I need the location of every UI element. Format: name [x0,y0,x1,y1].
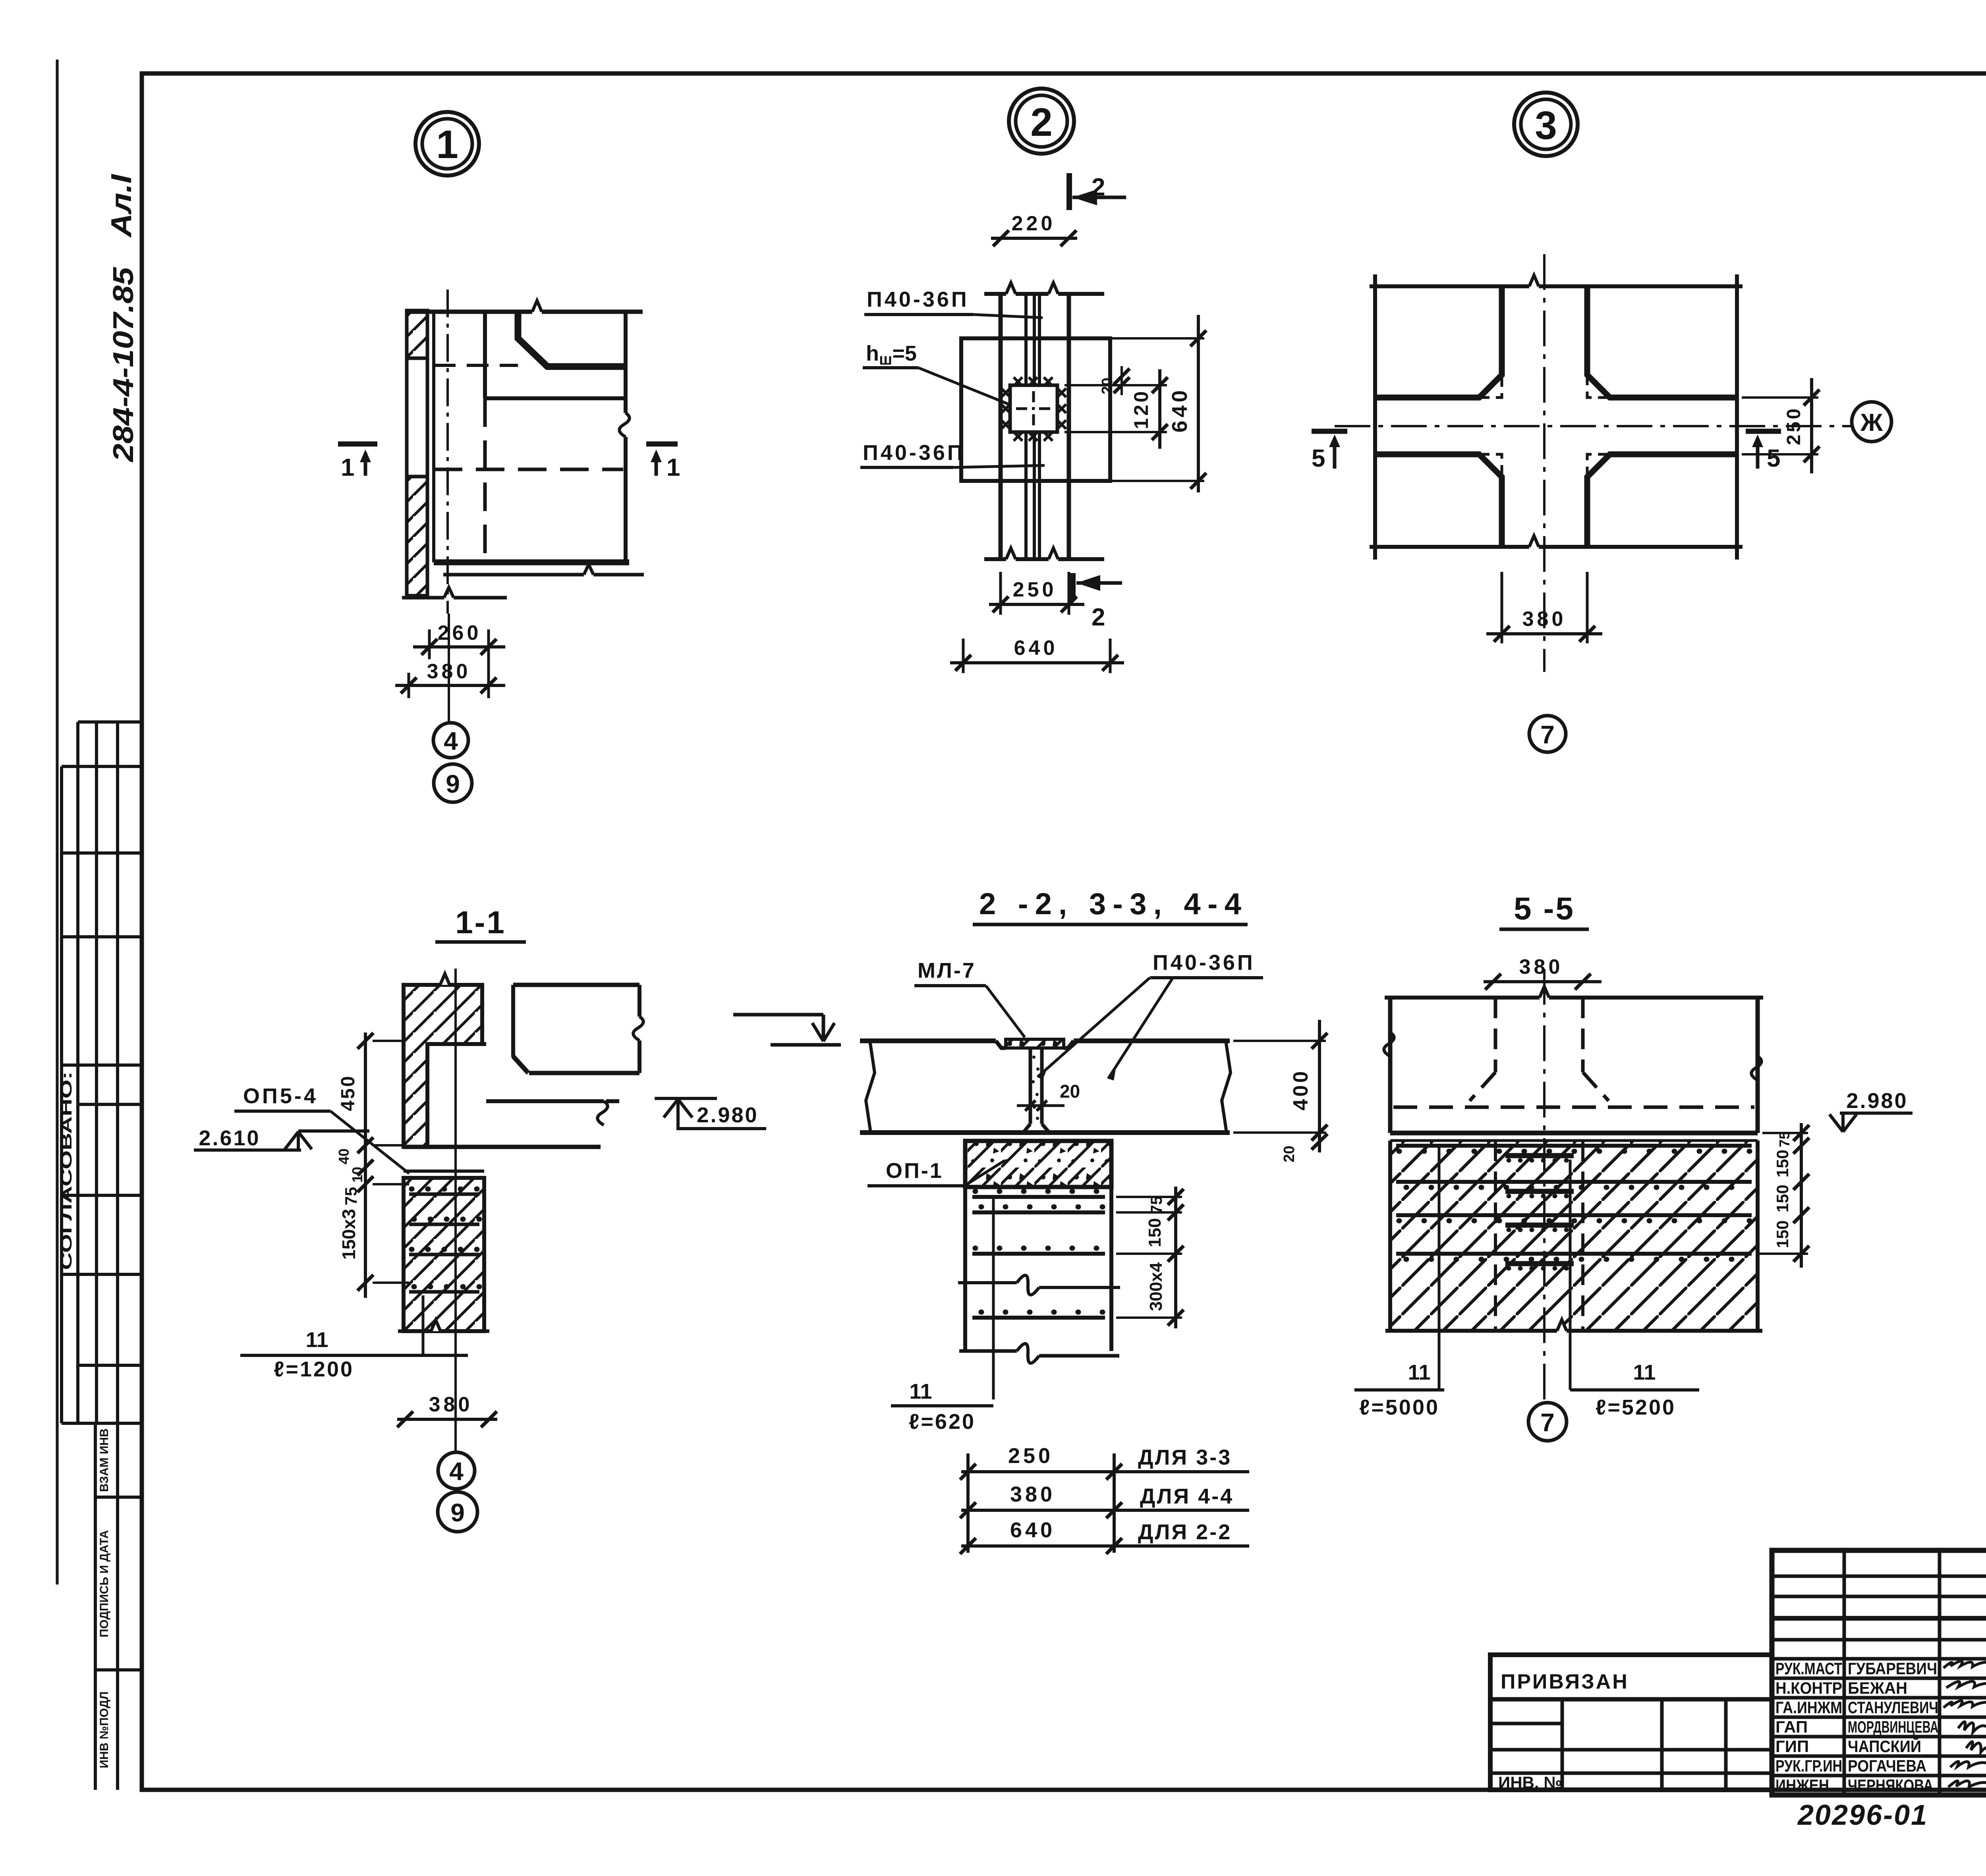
svg-text:11: 11 [305,1328,328,1352]
svg-text:ДЛЯ 4-4: ДЛЯ 4-4 [1140,1484,1234,1508]
svg-text:250: 250 [1008,1444,1053,1468]
mesh row 4 [409,1290,479,1294]
svg-text:ℓ=620: ℓ=620 [909,1410,976,1434]
axis horizontal [1335,425,1851,427]
svg-text:2.980: 2.980 [697,1103,758,1127]
mortar joint lines [404,1170,484,1173]
web mortar dots [1032,1056,1039,1120]
dim table row 640 for 2-2 [961,1544,1249,1548]
grid circle Zh [1852,402,1891,442]
recess ramp right [1064,1041,1074,1048]
joint plate MM-7 [1006,1039,1064,1048]
left dim chain [364,1033,367,1298]
svg-text:МЛ-7: МЛ-7 [918,959,976,982]
slab corner bottom-left [1375,454,1502,547]
dim 20 below [1312,1134,1327,1150]
detail marker circle 1 [415,112,479,176]
svg-text:4: 4 [449,1457,464,1486]
svg-text:380: 380 [429,1393,473,1416]
dim 640 bottom [962,639,965,673]
small grid rows [1772,1575,1986,1578]
wall top edge break [440,974,450,985]
svg-text:20: 20 [1281,1146,1298,1162]
slab field right edge [1735,274,1739,560]
section mark 5 right [1746,429,1781,434]
svg-text:Ж: Ж [1860,409,1883,436]
svg-text:Н.КОНТР: Н.КОНТР [1775,1679,1842,1697]
grid circle 4 [438,1452,475,1489]
dim 120 [1064,384,1167,386]
svg-text:ПОДПИСЬ И ДАТА: ПОДПИСЬ И ДАТА [98,1530,111,1637]
dim 250 right [1742,396,1818,399]
svg-text:МОРДВИНЦЕВА: МОРДВИНЦЕВА [1848,1718,1938,1736]
wall bottom break [959,1349,1017,1353]
embedded plate square [961,338,1110,481]
dim 640 right [1112,337,1204,340]
slab field left edge [1373,274,1377,560]
svg-text:9: 9 [446,770,460,798]
lap bar 4 [1505,1261,1574,1266]
svg-text:250: 250 [1013,578,1057,601]
svg-text:450: 450 [338,1075,359,1111]
dim 20 small [1121,366,1123,395]
slab field top edge with break [1370,284,1529,288]
section trace 2 top [1066,173,1072,210]
masonry bottom break [398,1330,431,1333]
dim table row 380 for 4-4 [961,1509,1249,1512]
svg-text:640: 640 [1010,1518,1055,1542]
svg-text:75: 75 [1148,1196,1165,1214]
svg-text:20296-01: 20296-01 [1797,1799,1928,1831]
svg-text:РУК.ГР.ИН: РУК.ГР.ИН [1775,1756,1842,1775]
slab corner bottom-right [1587,454,1737,547]
dim 380 bottom [397,1418,497,1421]
svg-text:380: 380 [1010,1482,1055,1506]
svg-text:9: 9 [450,1498,465,1527]
panel bottom break line [984,557,1006,561]
wall panel edges [999,294,1003,559]
svg-text:250: 250 [1783,406,1804,445]
left strip upper table [76,722,79,1423]
wall inner face line [432,312,435,562]
svg-text:7: 7 [1540,720,1555,749]
lap bar 1 [1505,1153,1574,1158]
mesh row 3 [409,1253,479,1256]
slab right end break [1222,1041,1231,1133]
svg-text:ГАП: ГАП [1775,1718,1808,1736]
slab field bottom edge with break [1370,545,1529,549]
svg-text:150: 150 [1773,1185,1792,1212]
mesh row 4 [1396,1252,1752,1256]
floor slab right [513,983,639,987]
svg-text:1-1: 1-1 [455,905,506,940]
upper wall hatched block [404,985,482,1147]
hidden panel below [1494,1141,1497,1331]
svg-text:380: 380 [1522,608,1567,631]
right dim chain [1116,1196,1182,1198]
hidden dashed long edge [434,468,623,471]
slab top surface left [860,1038,996,1043]
svg-text:ГА.ИНЖМ: ГА.ИНЖМ [1775,1698,1842,1717]
svg-text:1: 1 [667,454,680,481]
svg-text:Ал.I: Ал.I [106,174,137,238]
mesh row 1 [409,1193,479,1196]
svg-text:20: 20 [1060,1081,1080,1102]
svg-text:ДЛЯ 2-2: ДЛЯ 2-2 [1138,1520,1232,1544]
signatures [1943,1661,1986,1787]
mesh row 2 [1396,1180,1752,1184]
floor level pointer between sections [733,1013,823,1017]
outer margin guide line [56,60,59,1585]
svg-text:ℓ=5200: ℓ=5200 [1596,1395,1676,1419]
slab top surface right [1074,1038,1230,1043]
lap bar 3 [1505,1223,1574,1228]
svg-text:БЕЖАН: БЕЖАН [1848,1679,1907,1697]
dim 220 [991,237,1077,240]
svg-text:СОГЛАСОВАНО:: СОГЛАСОВАНО: [58,1071,75,1270]
hidden dashed edge [434,364,518,367]
svg-text:ℓ=1200: ℓ=1200 [274,1357,354,1381]
mesh row 1 [1396,1144,1752,1148]
svg-text:75: 75 [1776,1131,1793,1147]
svg-text:150: 150 [1145,1218,1165,1247]
svg-text:640: 640 [1168,387,1192,432]
grid circle 7 [1529,716,1566,752]
wall strip middle outline [405,358,409,477]
svg-text:7: 7 [1540,1408,1555,1437]
section mark 1 left [338,442,377,447]
level mark 2.980 [655,1097,717,1100]
svg-text:П40-36П: П40-36П [863,441,965,465]
svg-text:3: 3 [1535,103,1557,148]
bottom short line with break [402,596,444,600]
mesh row 3 [1396,1213,1752,1217]
detail marker circle 2 [1009,89,1074,154]
svg-text:120: 120 [1130,389,1152,429]
small grid columns [1843,1550,1846,1795]
support pad OP-1 [965,1141,1111,1187]
weld x marks [1001,377,1066,441]
svg-text:ДЛЯ 3-3: ДЛЯ 3-3 [1138,1446,1232,1469]
svg-text:11: 11 [909,1380,932,1403]
ledge line [482,1042,486,1046]
grid circle 4 [433,723,468,758]
axis centerline [446,290,449,614]
svg-text:ОП-1: ОП-1 [886,1159,943,1183]
svg-text:ЧАПСКИЙ: ЧАПСКИЙ [1848,1737,1921,1756]
svg-text:260: 260 [438,621,482,645]
wall mid break [958,1281,1017,1284]
dim table row 250 for 3-3 [961,1470,1249,1473]
mesh row 3 [972,1252,1105,1256]
svg-text:150: 150 [1773,1150,1792,1177]
mesh row 1 [972,1195,1105,1199]
svg-text:ℓ=5000: ℓ=5000 [1359,1395,1439,1419]
top edge line with break [407,310,532,314]
section mark 1 right [646,442,678,447]
plate centerlines [1016,407,1052,410]
wall hatched strip lower [407,477,427,596]
panel top break line [984,292,1006,296]
svg-text:40: 40 [336,1148,352,1164]
svg-text:ВЗАМ ИНВ: ВЗАМ ИНВ [98,1428,111,1492]
joint web [1029,1048,1032,1124]
axis vertical [1543,969,1546,1401]
rebar label 11 l=620 [992,1197,995,1399]
slab corner top-right [1587,286,1737,398]
svg-text:ГУБАРЕВИЧ: ГУБАРЕВИЧ [1848,1659,1937,1678]
svg-text:ИНЖЕН.: ИНЖЕН. [1775,1776,1833,1795]
pad top line with break [486,1099,604,1103]
masonry hatched block [404,1178,484,1331]
svg-text:11: 11 [1408,1361,1430,1384]
svg-text:2: 2 [1092,604,1105,631]
slab notch thick edge [518,312,626,367]
lap bar 2 [1505,1189,1574,1194]
svg-text:150x3: 150x3 [338,1209,359,1260]
svg-text:РУК.МАСТ: РУК.МАСТ [1775,1659,1842,1678]
wall edge right [1756,997,1760,1133]
svg-text:2.980: 2.980 [1846,1089,1908,1113]
shelf line [485,396,626,400]
bottom thick edge [434,560,629,566]
svg-text:2.610: 2.610 [199,1126,260,1150]
hatched slab band [1390,1141,1758,1331]
hidden edge vertical [483,312,487,398]
svg-text:ИНВ №ПОДЛ: ИНВ №ПОДЛ [98,1691,111,1768]
right dim chain [1762,1132,1808,1134]
joint lines [1024,294,1028,385]
slab left end break [866,1041,875,1133]
svg-text:300x4: 300x4 [1146,1262,1166,1311]
grid circle 9 [434,764,472,802]
svg-text:ПРИВЯЗАН: ПРИВЯЗАН [1501,1670,1629,1693]
svg-text:5 -5: 5 -5 [1514,891,1575,926]
wall axis [454,969,457,1452]
dim 20 web [1017,1104,1064,1107]
wall edge left [1388,997,1393,1133]
lower line with break [443,573,584,577]
weld plate small square [1010,385,1057,432]
dim 400 right [1233,1040,1326,1042]
svg-text:284-4-107.85: 284-4-107.85 [108,267,139,463]
svg-text:5: 5 [1767,445,1780,472]
dim 250 bottom [999,572,1002,615]
svg-text:ГИП: ГИП [1775,1737,1809,1756]
svg-text:ЧЕРНЯКОВА: ЧЕРНЯКОВА [1848,1776,1933,1795]
axis vertical [1543,254,1546,672]
dim 380 bottom [1501,572,1503,643]
mesh row 2 [972,1210,1105,1214]
svg-text:1: 1 [436,122,458,167]
mesh row 2 [409,1223,479,1226]
axis tail [448,614,450,723]
slab bottom break [1385,1329,1557,1333]
svg-text:РОГАЧЕВА: РОГАЧЕВА [1848,1756,1926,1775]
slab bottom surface [860,1130,1230,1135]
dim 380 [408,673,410,698]
svg-text:220: 220 [1012,212,1056,235]
svg-text:2: 2 [1092,174,1105,201]
section trace 2 bottom [1070,573,1076,600]
svg-text:11: 11 [1633,1361,1656,1384]
svg-text:4: 4 [444,727,458,755]
svg-text:640: 640 [1014,637,1058,660]
staff rows [1772,1657,1986,1661]
grid circle 7 [1528,1403,1567,1441]
hidden panel end [1494,998,1497,1072]
svg-text:10: 10 [349,1167,365,1183]
svg-text:СТАНУЛЕВИЧ: СТАНУЛЕВИЧ [1848,1698,1938,1717]
svg-text:П40-36П: П40-36П [867,288,969,311]
dim 260 [428,629,431,659]
section mark 5 left [1312,429,1347,434]
wall below pad [963,1187,967,1351]
mesh row 4 [972,1316,1105,1320]
svg-text:ИНВ. №: ИНВ. № [1498,1773,1562,1792]
svg-text:П40-36П: П40-36П [1153,951,1255,975]
grid circle 9 [438,1492,477,1532]
svg-text:400: 400 [1289,1069,1312,1111]
svg-text:380: 380 [1519,955,1563,979]
svg-text:ОП5-4: ОП5-4 [243,1084,318,1108]
svg-text:150: 150 [1773,1220,1792,1248]
svg-text:2: 2 [1030,100,1053,145]
pad bottom line [404,1145,601,1149]
right edge with break [624,312,628,413]
detail marker circle 3 [1514,93,1578,156]
recess ramp left [996,1041,1006,1048]
slab top line [1390,1131,1758,1135]
wall hatched strip upper [407,311,427,358]
big horizontal separations [1772,1616,1986,1621]
svg-text:1: 1 [341,454,354,481]
svg-text:75: 75 [342,1187,360,1206]
svg-text:5: 5 [1312,445,1325,472]
wall top ticks [1385,996,1540,1000]
slab corner top-left [1375,286,1502,398]
staff names [1775,1659,1938,1795]
left strip lower table [94,1423,97,1790]
